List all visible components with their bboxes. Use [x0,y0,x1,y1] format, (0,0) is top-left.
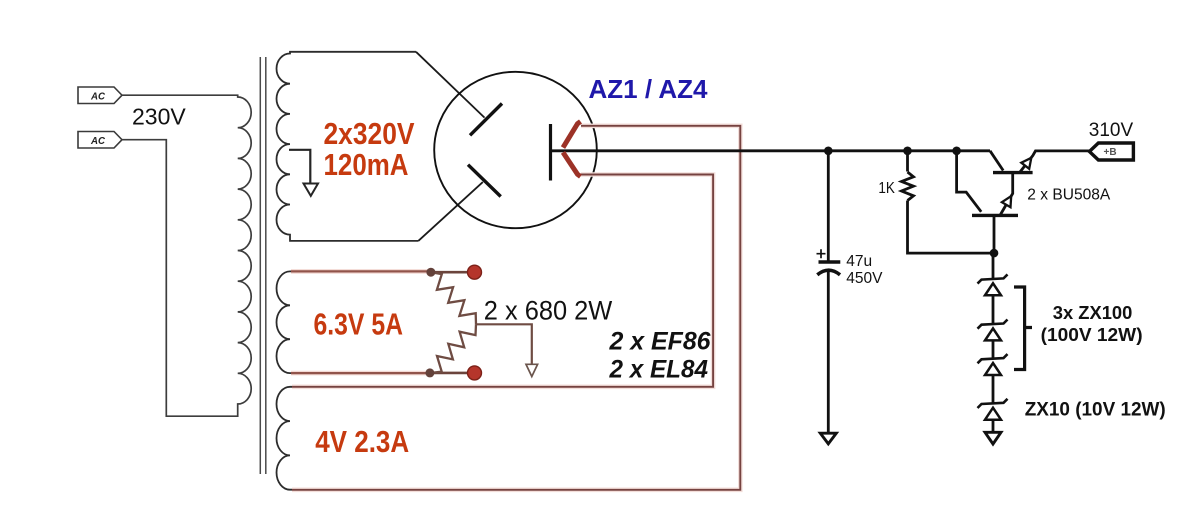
svg-text:120mA: 120mA [324,147,409,182]
wire heater bottom (red) to 4V winding top [292,175,713,387]
ground humdinger arrow [526,364,538,376]
wire HT center tap [289,150,310,184]
node heater terminal dot bottom [468,366,482,380]
wire humdinger center to ground [476,324,532,364]
label 2x320V 120mA [324,116,415,182]
filament of V1 (thick dark red chevrons) [563,122,581,177]
wire heater top (red) to 4V winding bottom [292,126,740,490]
svg-text:2 x BU508A: 2 x BU508A [1027,187,1110,204]
node junction dot 6.3V top [426,268,435,277]
zener D1 ZX100 [978,253,1008,295]
svg-text:+B: +B [1104,147,1117,158]
node junction dot C1 [824,147,833,156]
wire junction to heater terminal top [431,271,475,274]
svg-text:4V 2.3A: 4V 2.3A [315,424,409,459]
svg-text:2x320V: 2x320V [324,116,415,151]
wire anode lead lower (to tube plate) [418,182,483,241]
capacitor C1 47u 450V [817,151,840,433]
node junction dot 6.3V bottom [425,368,434,377]
svg-text:3x ZX100: 3x ZX100 [1053,302,1133,323]
svg-text:AC: AC [90,136,106,147]
transistor Q2 (driver BU508A) [972,173,1018,254]
resistor R2 680 (humdinger lower) [431,324,476,373]
node junction dot R3 [903,147,912,156]
svg-text:450V: 450V [846,270,883,287]
wire junction to heater terminal bottom [429,372,474,375]
svg-text:2 x 680 2W: 2 x 680 2W [484,296,613,326]
svg-text:2 x EF86: 2 x EF86 [609,327,712,355]
bracket 3x ZX100 [1014,287,1032,370]
wire AC loop + primary winding T1 primary [122,95,251,416]
cathode bar [549,124,552,181]
ground zener arrow [985,432,1001,444]
svg-text:6.3V 5A: 6.3V 5A [314,307,404,342]
ground center tap arrow [304,184,319,196]
zener D2 ZX100 [978,295,1008,340]
svg-text:2 x EL84: 2 x EL84 [609,356,709,384]
svg-text:AZ1 / AZ4: AZ1 / AZ4 [589,74,709,104]
transistor Q1 (output BU508A) [990,151,1089,173]
svg-text:310V: 310V [1089,120,1134,141]
resistor R1 680 (humdinger upper) [431,272,476,324]
connector J2 AC input bottom [78,132,122,149]
ground C1 arrow [820,433,836,444]
svg-text:230V: 230V [132,104,186,130]
connector +B output [1089,143,1133,160]
winding S3 4V coil [277,387,293,490]
node heater terminal dot top [468,265,482,279]
zener D4 ZX10 [978,375,1008,432]
polarity plus sign C1 [817,249,826,258]
winding S1 2x320V : top lead, coil, bottom lead [277,52,419,241]
wire Q2 collector feed [957,151,982,212]
wire anode lead upper (to tube plate) [416,52,485,118]
node junction dot zener top [990,249,999,258]
svg-text:ZX10 (10V 12W): ZX10 (10V 12W) [1025,400,1166,421]
wire 6.3V bottom lead [291,371,429,376]
zener D3 ZX100 [978,340,1008,375]
anode plate lower [468,165,501,197]
wire 6.3V top lead [291,269,431,274]
svg-text:47u: 47u [846,253,872,270]
winding S2 6.3V coil [277,271,293,373]
svg-text:AC: AC [90,92,106,103]
svg-text:1K: 1K [878,180,895,197]
node junction dot Q2 feed [952,147,961,156]
transformer core [260,57,266,474]
connector J1 AC input top [78,87,122,104]
anode plate upper [470,104,502,136]
resistor R3 1K [902,151,995,253]
tube V1 AZ1/AZ4 envelope [434,72,597,228]
wire B+ from cathode to regulator [551,149,991,152]
svg-text:(100V 12W): (100V 12W) [1041,324,1143,345]
